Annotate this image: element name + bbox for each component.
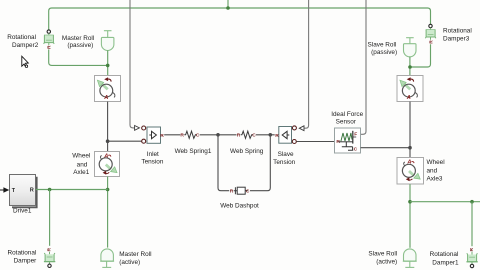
wire: damper R2 to left column <box>49 49 108 65</box>
svg-text:C: C <box>196 133 200 139</box>
svg-text:Web Spring: Web Spring <box>230 148 264 155</box>
svg-text:Rotational: Rotational <box>7 34 36 41</box>
svg-text:Wheel: Wheel <box>72 153 90 160</box>
svg-text:R: R <box>47 247 53 251</box>
wire: Slave Tension C to sensor R <box>297 141 335 143</box>
svg-text:Slave Roll: Slave Roll <box>368 42 397 49</box>
svg-text:Drive1: Drive1 <box>13 208 32 215</box>
rotational damper R3 (top right) <box>425 24 436 43</box>
svg-text:Rotational: Rotational <box>8 249 37 256</box>
node: left top junction <box>106 64 110 68</box>
inertia: Slave Roll (passive) <box>404 38 417 57</box>
node: junction to Web Dashpot (left) <box>216 133 220 137</box>
label: Inlet Tension <box>141 151 163 166</box>
label: Rotational Damper2 <box>7 34 39 49</box>
label: Rotational Damper <box>8 249 38 264</box>
label: Ideal Force Sensor <box>331 111 363 125</box>
wire: Wheel and Axle3 down to Slave Roll (active) <box>409 184 411 248</box>
label: Master Roll (passive) <box>62 35 94 49</box>
wire: signal line to Slave Tension S <box>299 0 308 131</box>
svg-text:C: C <box>252 133 256 139</box>
svg-text:(passive): (passive) <box>67 42 93 49</box>
svg-text:R: R <box>275 133 279 139</box>
svg-text:Ideal Force: Ideal Force <box>331 111 363 118</box>
wire: top rotational bus <box>49 8 431 30</box>
wire: drop to Rotational Damper <box>49 190 51 246</box>
node: junction to Rotational Damper <box>48 188 52 192</box>
wire: Web Dashpot loop <box>218 135 270 191</box>
wire: junction to Inlet Tension C <box>108 140 142 142</box>
svg-text:Sensor: Sensor <box>336 119 357 126</box>
block: Ideal Force Sensor <box>335 128 361 153</box>
label: Master Roll (active) <box>119 251 151 266</box>
spring: Web Spring1 <box>180 131 200 138</box>
rotational damper (bottom left) <box>44 247 55 267</box>
wire: right column translational <box>409 102 411 158</box>
block: Wheel and Axle (top left) <box>95 76 121 102</box>
label: Rotational Damper1 <box>430 251 459 267</box>
wire: signal line from force sensor F <box>357 0 366 134</box>
wire: drop to Rotational Damper1 <box>471 202 473 247</box>
svg-text:F: F <box>354 131 357 137</box>
wire: sensor C to right column <box>361 147 410 149</box>
wire: inertia stem to Wheel and Axle (top left) <box>107 51 109 76</box>
svg-text:Inlet: Inlet <box>147 151 159 158</box>
inertia: Slave Roll (active) <box>403 249 417 267</box>
wire: Web Spring1 to Web Spring <box>200 134 237 136</box>
label: Rotational Damper3 <box>443 28 472 43</box>
svg-text:C: C <box>354 146 358 152</box>
svg-text:R: R <box>230 189 234 195</box>
svg-text:A: A <box>406 160 411 166</box>
svg-text:Slave: Slave <box>278 151 294 158</box>
svg-text:R: R <box>160 133 164 139</box>
block: Wheel and Axle (top right) <box>397 76 423 102</box>
wire: Web Spring to Slave Tension R <box>256 134 275 136</box>
svg-text:R: R <box>180 133 184 139</box>
svg-text:Master Roll: Master Roll <box>119 251 151 258</box>
node: left dark junction <box>106 139 110 143</box>
svg-text:(active): (active) <box>376 258 397 265</box>
rotational damper R2 (top left) <box>44 30 55 49</box>
svg-text:Damper1: Damper1 <box>432 259 459 266</box>
wire: Drive1 R to column <box>36 189 108 191</box>
svg-text:R: R <box>237 133 241 139</box>
svg-text:Rotational: Rotational <box>430 251 459 258</box>
svg-text:Web Dashpot: Web Dashpot <box>220 202 259 209</box>
svg-text:Tension: Tension <box>141 159 163 166</box>
node: junction to Web Dashpot (right) <box>269 133 273 137</box>
block: Drive1 <box>0 175 37 208</box>
svg-text:and: and <box>427 167 438 174</box>
svg-text:Damper3: Damper3 <box>443 36 470 43</box>
svg-text:R: R <box>428 40 434 44</box>
svg-text:A: A <box>103 95 108 101</box>
node: right top junction <box>408 65 412 69</box>
label: Slave Roll (passive) <box>368 42 398 57</box>
node: junction drive wire meets column <box>106 188 110 192</box>
svg-text:Axle1: Axle1 <box>73 169 89 176</box>
svg-text:Rotational: Rotational <box>443 28 472 35</box>
rotational damper R1 (bottom right) <box>466 247 477 267</box>
svg-text:A: A <box>103 153 108 159</box>
label: Slave Tension <box>273 151 295 166</box>
dashpot: Web Dashpot <box>230 187 250 194</box>
svg-text:Web Spring1: Web Spring1 <box>175 148 212 155</box>
wire: signal line to Inlet Tension S <box>130 0 139 130</box>
wire: damper R3 to right column <box>410 44 431 67</box>
svg-text:R: R <box>30 188 34 194</box>
wire: Wheel and Axle1 down to Master Roll (active) <box>107 177 109 248</box>
wire: left column translational (top) <box>107 102 109 152</box>
block: Inlet Tension <box>142 126 165 143</box>
svg-text:Slave Roll: Slave Roll <box>368 251 397 258</box>
label: Wheel and Axle1 <box>72 153 90 177</box>
svg-text:(active): (active) <box>119 259 140 266</box>
svg-text:Wheel: Wheel <box>427 159 445 166</box>
svg-text:Axle3: Axle3 <box>427 175 443 182</box>
cursor <box>22 56 29 67</box>
inertia: Master Roll (passive) <box>101 31 114 51</box>
block: Wheel and Axle1 (bottom left) <box>95 152 120 177</box>
node: junction bottom right column <box>408 200 412 204</box>
label: Slave Roll (active) <box>368 251 397 266</box>
block: Wheel and Axle3 (bottom right) <box>397 158 424 185</box>
wire: bottom right bus <box>410 201 480 203</box>
svg-text:Damper: Damper <box>14 257 38 264</box>
wire: stub from top edge <box>227 0 229 8</box>
svg-text:(passive): (passive) <box>371 49 397 56</box>
svg-text:C: C <box>246 189 250 195</box>
svg-text:and: and <box>77 161 88 168</box>
node: right dark junction <box>408 146 412 150</box>
spring: Web Spring <box>237 131 257 138</box>
inertia: Master Roll (active) <box>100 249 114 267</box>
block: Slave Tension <box>275 126 296 144</box>
wire: Inlet R to Web Spring1 <box>164 134 180 136</box>
svg-text:Tension: Tension <box>273 159 295 166</box>
svg-text:R: R <box>47 45 53 49</box>
label: Wheel and Axle3 <box>427 159 445 183</box>
svg-text:Damper2: Damper2 <box>12 42 39 49</box>
svg-text:R: R <box>469 247 475 251</box>
svg-text:A: A <box>406 95 411 101</box>
node: top bus junction <box>226 6 230 10</box>
node: junction to Rotational Damper1 <box>470 200 474 204</box>
wire: inertia stem to Wheel and Axle (top right) <box>409 57 411 76</box>
